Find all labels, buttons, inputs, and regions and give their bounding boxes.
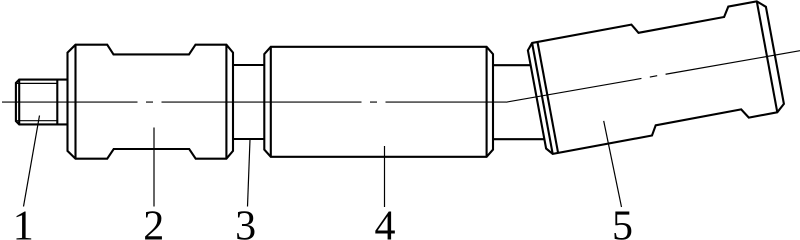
sec2 right chamfer edge line xyxy=(225,45,227,159)
sec5 secondary ring line xyxy=(538,42,559,153)
section 5: tilted grooved hub outline xyxy=(528,1,784,154)
leader line to label 3 xyxy=(248,140,251,207)
section 4: cylinder outline xyxy=(264,47,493,157)
neck 4-5 top xyxy=(493,64,531,66)
section 1: threaded stud outline xyxy=(16,80,68,125)
thread minor dia bottom xyxy=(17,120,58,122)
neck 4-5 bottom xyxy=(493,138,544,140)
sec4 left chamfer edge line xyxy=(270,47,272,157)
tilted centerline of section 5 (dash-dot) xyxy=(506,51,800,102)
neck 3 bottom xyxy=(233,138,264,140)
sec2 left chamfer edge line xyxy=(74,45,76,159)
thread runout line xyxy=(56,80,58,125)
sec5 left chamfer edge line xyxy=(532,43,553,154)
sec4 right chamfer edge line xyxy=(486,47,488,157)
thread minor dia top xyxy=(17,82,58,84)
thread chamfer edge line xyxy=(18,80,20,125)
svg-text:1: 1 xyxy=(13,204,34,240)
leader line to label 1 xyxy=(24,116,40,207)
main horizontal centerline (dash-dot) xyxy=(2,101,506,103)
leader line to label 2 xyxy=(153,128,155,207)
svg-text:4: 4 xyxy=(375,204,396,240)
leader line to label 4 xyxy=(384,146,386,207)
svg-text:3: 3 xyxy=(235,204,256,240)
section 2: grooved hub outline xyxy=(68,45,234,159)
neck 3 top xyxy=(233,64,264,66)
svg-text:2: 2 xyxy=(143,204,164,240)
sec5 right chamfer edge line xyxy=(757,1,778,112)
leader line to label 5 xyxy=(604,121,622,207)
svg-text:5: 5 xyxy=(612,204,633,240)
